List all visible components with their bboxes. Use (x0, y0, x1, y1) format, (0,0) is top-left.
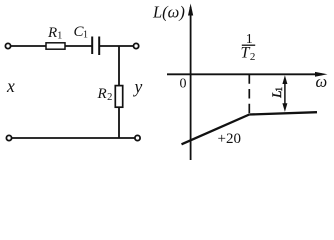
svg-text:R1: R1 (47, 25, 62, 41)
vertical axis arrowhead (188, 4, 193, 16)
svg-text:ω: ω (316, 72, 328, 91)
svg-text:R2: R2 (97, 86, 113, 103)
svg-text:1: 1 (275, 87, 285, 92)
terminal bottom-left (6, 135, 11, 140)
svg-text:C1: C1 (74, 24, 89, 41)
terminal bottom-right (135, 135, 140, 140)
horizontal response line (249, 112, 317, 114)
horizontal axis (omega) (167, 73, 322, 75)
vertical axis (190, 7, 192, 160)
svg-text:x: x (6, 76, 15, 96)
resistor R1 (46, 43, 65, 49)
dashed line at 1/T2 (248, 74, 250, 114)
terminal top-right (134, 43, 139, 48)
wire node-to-R2 (junction at top node) (118, 46, 120, 86)
svg-text:L(ω): L(ω) (152, 3, 185, 22)
svg-text:+20: +20 (218, 131, 241, 147)
wire capacitor-to-right-terminal (99, 45, 133, 47)
svg-text:T2: T2 (241, 45, 256, 63)
resistor R2 (115, 86, 122, 108)
svg-text:y: y (133, 76, 143, 96)
terminal top-left (5, 43, 10, 48)
wire bottom (12, 137, 135, 139)
wire R2-to-bottom (118, 107, 120, 138)
sloped +20 line (182, 115, 250, 145)
wire top-left segment (11, 45, 46, 47)
wire resistor-to-capacitor (65, 45, 92, 47)
capacitor C1 (92, 37, 99, 56)
L1 dimension arrow (282, 75, 287, 112)
svg-text:0: 0 (180, 77, 187, 92)
horizontal axis arrowhead (315, 72, 328, 77)
